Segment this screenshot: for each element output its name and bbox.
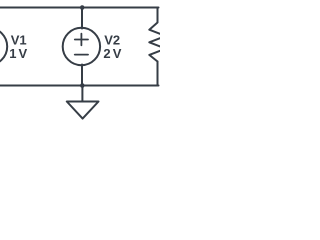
svg-text:2 V: 2 V — [103, 46, 121, 61]
V2 minus sign — [75, 54, 88, 56]
ground — [67, 102, 99, 119]
svg-text:1 V: 1 V — [9, 46, 27, 61]
voltage source V2 — [63, 28, 100, 65]
wire V2 bottom — [81, 65, 83, 86]
V2 plus sign — [75, 39, 88, 41]
voltage source V1 (clipped at left edge) — [0, 28, 7, 65]
wire right top lead — [157, 8, 159, 23]
wire top rail — [0, 7, 159, 9]
wire right bottom lead — [157, 62, 159, 86]
node B junction dot bottom — [80, 83, 85, 88]
wire V2 top — [81, 8, 83, 29]
wire bottom rail — [0, 85, 159, 87]
ground stem — [81, 86, 83, 102]
node A junction dot top — [80, 5, 85, 10]
resistor R1 — [149, 23, 165, 62]
